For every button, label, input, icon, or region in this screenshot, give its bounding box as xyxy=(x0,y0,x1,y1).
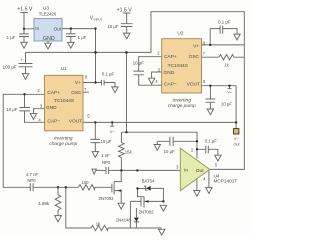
svg-text:0.1 μF: 0.1 μF xyxy=(205,139,218,144)
svg-text:V+: V+ xyxy=(75,80,81,86)
svg-text:TC1044S: TC1044S xyxy=(54,98,74,104)
svg-text:V−: V− xyxy=(227,90,233,94)
svg-text:NP0: NP0 xyxy=(102,160,111,165)
svg-text:CAP+: CAP+ xyxy=(47,90,60,96)
svg-text:In: In xyxy=(35,26,39,31)
svg-text:VOUT: VOUT xyxy=(187,82,200,88)
svg-text:0.1 μF: 0.1 μF xyxy=(218,20,231,25)
svg-text:10 μF: 10 μF xyxy=(100,139,111,144)
svg-text:0.1 μF: 0.1 μF xyxy=(102,72,115,77)
svg-text:10 μF: 10 μF xyxy=(6,107,17,112)
svg-text:Inverting: Inverting xyxy=(54,135,73,141)
svg-text:V+: V+ xyxy=(193,44,199,50)
svg-text:4.7 nF: 4.7 nF xyxy=(26,172,39,177)
svg-text:NP0: NP0 xyxy=(27,178,36,183)
svg-text:1 μF: 1 μF xyxy=(78,35,87,40)
svg-text:Inverting: Inverting xyxy=(172,98,191,104)
svg-text:GND: GND xyxy=(164,70,175,76)
svg-text:GND: GND xyxy=(43,36,55,42)
svg-text:CAP−: CAP− xyxy=(47,118,60,124)
svg-text:+1.5 V: +1.5 V xyxy=(17,6,33,12)
svg-text:100 μF: 100 μF xyxy=(3,65,17,70)
svg-text:VOUT: VOUT xyxy=(69,118,82,124)
svg-text:Out: Out xyxy=(233,143,240,147)
svg-text:U3: U3 xyxy=(43,5,49,11)
svg-text:GND: GND xyxy=(46,105,57,111)
svg-text:V−: V− xyxy=(234,137,240,141)
svg-text:TC1044S: TC1044S xyxy=(168,63,188,69)
svg-text:CAP−: CAP− xyxy=(164,82,177,88)
svg-text:100: 100 xyxy=(81,180,89,185)
svg-text:4.99k: 4.99k xyxy=(38,201,50,206)
svg-text:1 μF: 1 μF xyxy=(7,35,16,40)
svg-text:OSC: OSC xyxy=(189,54,200,60)
svg-text:U1: U1 xyxy=(61,66,67,72)
svg-text:1 nF: 1 nF xyxy=(101,153,110,158)
svg-text:10 μF: 10 μF xyxy=(221,101,232,106)
svg-text:charge pump: charge pump xyxy=(168,103,196,109)
svg-text:15k: 15k xyxy=(125,149,133,154)
svg-text:10 μF: 10 μF xyxy=(133,61,144,66)
svg-text:TLE2426: TLE2426 xyxy=(39,12,57,17)
svg-text:Out: Out xyxy=(196,168,204,174)
svg-text:2N7002: 2N7002 xyxy=(138,210,154,215)
svg-text:+1.5 V: +1.5 V xyxy=(117,8,133,14)
svg-text:Out: Out xyxy=(54,26,62,31)
svg-text:10 μF: 10 μF xyxy=(107,24,118,29)
svg-text:V−: V− xyxy=(110,130,116,134)
svg-text:OSC: OSC xyxy=(71,90,82,96)
svg-text:INPUT: INPUT xyxy=(94,17,103,21)
svg-text:CAP+: CAP+ xyxy=(164,54,177,60)
svg-text:In: In xyxy=(184,167,188,173)
svg-text:charge pump: charge pump xyxy=(49,141,77,147)
svg-text:BAT54: BAT54 xyxy=(142,178,155,183)
svg-text:10 μF: 10 μF xyxy=(164,149,175,154)
svg-text:MCP1401T: MCP1401T xyxy=(214,179,238,184)
svg-text:1N4148: 1N4148 xyxy=(116,218,132,223)
svg-text:2N7002: 2N7002 xyxy=(98,196,114,201)
svg-text:U2: U2 xyxy=(177,31,183,37)
